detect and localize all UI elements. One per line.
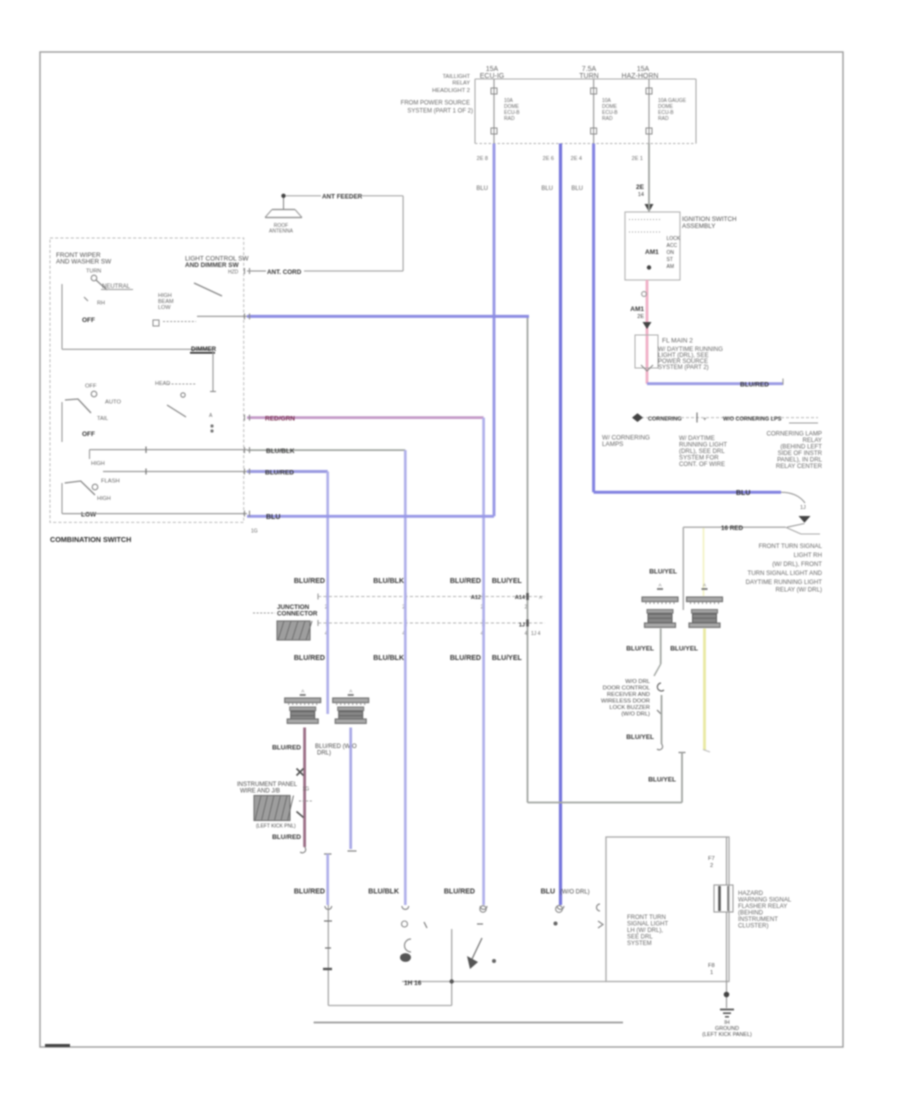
- svg-text:HIGH: HIGH: [91, 461, 105, 467]
- svg-text:BLU/RED: BLU/RED: [294, 889, 325, 896]
- svg-text:BLU: BLU: [476, 186, 488, 192]
- svg-text:BLU/RED: BLU/RED: [294, 655, 325, 662]
- svg-text:W/O CORNERING LPS: W/O CORNERING LPS: [723, 417, 782, 423]
- svg-text:WIRE AND J/B: WIRE AND J/B: [240, 789, 280, 795]
- svg-text:RAD: RAD: [658, 116, 669, 122]
- svg-text:BLU/YEL: BLU/YEL: [670, 646, 698, 653]
- svg-text:A: A: [539, 595, 542, 600]
- svg-text:BLU: BLU: [571, 186, 583, 192]
- svg-text:ANTENNA: ANTENNA: [269, 229, 294, 235]
- svg-text:HZD: HZD: [228, 270, 239, 276]
- svg-text:FRONT TURN SIGNAL: FRONT TURN SIGNAL: [759, 543, 823, 550]
- svg-text:RAD: RAD: [602, 116, 613, 122]
- svg-text:IGNITION SWITCH: IGNITION SWITCH: [682, 216, 737, 223]
- svg-text:BLU/RED: BLU/RED: [265, 469, 294, 476]
- svg-text:AND WASHER SW: AND WASHER SW: [56, 259, 112, 266]
- svg-text:TURN: TURN: [579, 73, 598, 80]
- svg-text:RH: RH: [97, 301, 105, 307]
- svg-text:BLU/RED: BLU/RED: [272, 834, 301, 841]
- svg-text:FL MAIN 2: FL MAIN 2: [662, 338, 693, 345]
- svg-text:AM: AM: [667, 264, 675, 270]
- svg-text:2E 1: 2E 1: [632, 156, 643, 162]
- svg-text:ECU-IG: ECU-IG: [480, 73, 505, 80]
- svg-text:LOW: LOW: [81, 512, 97, 519]
- svg-text:CORNERING: CORNERING: [648, 417, 682, 423]
- svg-text:OFF: OFF: [85, 384, 97, 390]
- svg-text:OFF: OFF: [82, 317, 95, 324]
- svg-text:INSTRUMENT PANEL: INSTRUMENT PANEL: [237, 782, 298, 788]
- svg-text:FRONT TURN: FRONT TURN: [627, 915, 666, 921]
- svg-text:16 RED: 16 RED: [721, 525, 744, 532]
- svg-text:SYSTEM: SYSTEM: [627, 941, 652, 947]
- svg-text:14: 14: [638, 192, 644, 198]
- svg-text:BLU: BLU: [736, 490, 750, 497]
- svg-text:LOW: LOW: [158, 305, 171, 311]
- svg-text:AM1: AM1: [645, 249, 659, 256]
- svg-text:BLU/YEL: BLU/YEL: [492, 655, 523, 662]
- svg-text:1: 1: [710, 970, 713, 976]
- svg-text:1G: 1G: [303, 787, 310, 793]
- svg-text:1J: 1J: [519, 623, 525, 629]
- svg-text:A: A: [301, 689, 304, 694]
- svg-text:DAYTIME RUNNING LIGHT: DAYTIME RUNNING LIGHT: [746, 579, 823, 586]
- svg-text:CLUSTER): CLUSTER): [738, 923, 768, 930]
- svg-text:F7: F7: [708, 856, 715, 862]
- svg-text:TAILLIGHT: TAILLIGHT: [443, 74, 471, 80]
- svg-text:2E 4: 2E 4: [571, 156, 582, 162]
- svg-text:ACC: ACC: [667, 243, 678, 249]
- svg-text:BLU/BLK: BLU/BLK: [373, 578, 404, 585]
- svg-text:15A: 15A: [637, 66, 650, 73]
- svg-text:FROM POWER SOURCE: FROM POWER SOURCE: [401, 101, 470, 107]
- svg-text:CONNECTOR: CONNECTOR: [277, 611, 318, 618]
- svg-text:AUTO: AUTO: [105, 400, 121, 406]
- svg-text:A: A: [658, 583, 661, 588]
- svg-text:A: A: [703, 583, 706, 588]
- svg-text:RED/GRN: RED/GRN: [265, 415, 295, 422]
- svg-text:BLU/YEL: BLU/YEL: [626, 734, 654, 741]
- svg-text:BLU/RED: BLU/RED: [740, 382, 769, 389]
- svg-text:BLU/BLK: BLU/BLK: [368, 889, 399, 896]
- svg-text:BLU/YEL: BLU/YEL: [648, 777, 676, 784]
- svg-text:15A: 15A: [486, 66, 499, 73]
- svg-text:DOOR CONTROL: DOOR CONTROL: [603, 686, 651, 692]
- svg-text:SEE DRL: SEE DRL: [627, 935, 653, 941]
- svg-text:1H 16: 1H 16: [404, 980, 422, 987]
- svg-text:ASSEMBLY: ASSEMBLY: [682, 223, 716, 230]
- svg-text:RELAY CENTER: RELAY CENTER: [776, 463, 823, 470]
- svg-text:LOCK: LOCK: [667, 236, 681, 242]
- svg-text:ON: ON: [667, 250, 675, 256]
- svg-text:2E 8: 2E 8: [477, 156, 488, 162]
- svg-text:1G: 1G: [251, 529, 258, 535]
- svg-text:SIGNAL LIGHT: SIGNAL LIGHT: [627, 922, 668, 928]
- svg-text:BLU: BLU: [266, 514, 280, 521]
- svg-text:2E: 2E: [637, 314, 644, 320]
- svg-text:BLU/RED: BLU/RED: [294, 578, 325, 585]
- svg-text:1J: 1J: [800, 505, 806, 511]
- svg-text:LOCK BUZZER: LOCK BUZZER: [609, 705, 650, 711]
- svg-text:ANT. CORD: ANT. CORD: [267, 269, 302, 276]
- svg-text:LAMPS: LAMPS: [602, 441, 623, 448]
- svg-text:A14: A14: [515, 595, 526, 601]
- svg-text:CONT. OF WIRE: CONT. OF WIRE: [679, 461, 725, 468]
- svg-text:2E: 2E: [636, 184, 645, 191]
- svg-text:FLASH: FLASH: [101, 479, 120, 485]
- svg-text:W/O DRL: W/O DRL: [625, 679, 651, 685]
- svg-text:(W/ DRL), FRONT: (W/ DRL), FRONT: [772, 561, 822, 568]
- svg-text:4: 4: [525, 631, 528, 637]
- svg-text:ST: ST: [667, 257, 673, 263]
- svg-text:SYSTEM (PART 1 OF 2): SYSTEM (PART 1 OF 2): [407, 109, 473, 115]
- svg-text:GAUGE: GAUGE: [668, 98, 687, 104]
- svg-text:RECEIVER AND: RECEIVER AND: [607, 692, 650, 698]
- svg-text:A12: A12: [471, 595, 481, 601]
- svg-text:AM1: AM1: [630, 306, 644, 313]
- svg-text:BLU: BLU: [541, 186, 553, 192]
- svg-text:BLU/YEL: BLU/YEL: [626, 646, 654, 653]
- svg-text:SYSTEM (PART 2): SYSTEM (PART 2): [658, 365, 709, 371]
- svg-text:BLU/RED: BLU/RED: [444, 889, 475, 896]
- svg-text:2E 6: 2E 6: [543, 156, 554, 162]
- svg-text:HAZ-HORN: HAZ-HORN: [622, 73, 659, 80]
- svg-text:BLU/BLK: BLU/BLK: [373, 655, 404, 662]
- svg-text:RELAY: RELAY: [452, 81, 470, 87]
- svg-text:TURN SIGNAL LIGHT AND: TURN SIGNAL LIGHT AND: [748, 570, 823, 577]
- svg-text:ANT FEEDER: ANT FEEDER: [322, 194, 363, 201]
- svg-text:BLU/BLK: BLU/BLK: [266, 448, 295, 455]
- svg-text:1J 4: 1J 4: [531, 631, 541, 637]
- svg-text:2: 2: [710, 863, 713, 869]
- svg-text:AND DIMMER SW: AND DIMMER SW: [185, 262, 240, 269]
- svg-text:BLU/RED: BLU/RED: [272, 745, 301, 752]
- svg-text:F8: F8: [708, 963, 715, 969]
- svg-text:(LEFT KICK PNL): (LEFT KICK PNL): [256, 824, 296, 830]
- svg-text:+: +: [703, 417, 707, 423]
- svg-text:WIRELESS DOOR: WIRELESS DOOR: [601, 699, 650, 705]
- svg-text:TAIL: TAIL: [97, 416, 108, 422]
- svg-text:(LEFT KICK PANEL): (LEFT KICK PANEL): [702, 1032, 752, 1038]
- svg-text:(W/O DRL): (W/O DRL): [560, 890, 590, 896]
- svg-text:RELAY (W/ DRL): RELAY (W/ DRL): [776, 587, 823, 594]
- svg-text:LH (W/ DRL),: LH (W/ DRL),: [627, 928, 663, 934]
- svg-text:HEADLIGHT 2: HEADLIGHT 2: [432, 88, 470, 94]
- svg-text:BLU/RED: BLU/RED: [450, 578, 481, 585]
- svg-text:OFF: OFF: [82, 431, 95, 438]
- svg-text:A: A: [349, 689, 352, 694]
- svg-text:BLU: BLU: [541, 889, 555, 896]
- svg-text:TURN: TURN: [86, 269, 101, 275]
- svg-text:BLU/RED: BLU/RED: [450, 655, 481, 662]
- svg-text:BLU/YEL: BLU/YEL: [492, 578, 523, 585]
- svg-text:BLU/YEL: BLU/YEL: [649, 569, 677, 576]
- svg-text:(W/O DRL): (W/O DRL): [621, 712, 650, 718]
- svg-text:HIGH: HIGH: [97, 496, 111, 502]
- svg-text:2: 2: [525, 605, 528, 611]
- svg-text:RAD: RAD: [504, 116, 515, 122]
- svg-text:7.5A: 7.5A: [582, 66, 597, 73]
- svg-text:LIGHT RH: LIGHT RH: [794, 552, 822, 559]
- svg-text:DRL): DRL): [317, 751, 331, 757]
- svg-text:COMBINATION SWITCH: COMBINATION SWITCH: [50, 535, 131, 544]
